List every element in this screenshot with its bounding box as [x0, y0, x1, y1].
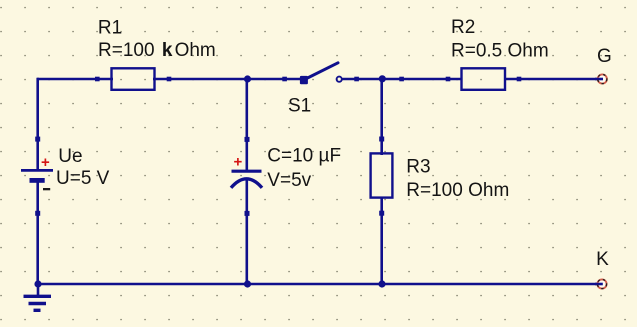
- wire: R2 right to terminal G: [504, 78, 602, 81]
- svg-text:R=100 kOhm: R=100 kOhm: [98, 40, 216, 61]
- node: junction at capacitor branch: [244, 75, 251, 82]
- wire: battery bottom down to bottom rail: [36, 181, 39, 285]
- wire: bottom rail from ground to terminal K: [37, 283, 602, 286]
- svg-text:K: K: [596, 249, 609, 270]
- wire: switch right terminal to R2: [343, 78, 463, 81]
- svg-text:G: G: [597, 46, 612, 67]
- wire: R3 branch lower segment: [380, 197, 383, 286]
- wire: junction to switch left terminal: [247, 78, 300, 81]
- node: junction bottom of capacitor branch: [244, 280, 251, 287]
- resistor R3: [371, 137, 393, 216]
- voltage source Ue (U=5 V): [21, 137, 53, 216]
- svg-text:+: +: [234, 154, 243, 171]
- resistor R2: [446, 68, 522, 90]
- resistor R1: [95, 68, 171, 90]
- svg-text:C=10 µF: C=10 µF: [267, 145, 341, 166]
- svg-text:V=5v: V=5v: [267, 170, 311, 191]
- wire: R3 branch upper segment: [380, 78, 383, 155]
- wire: capacitor branch upper segment: [246, 78, 249, 171]
- wire: capacitor branch lower segment: [246, 180, 249, 285]
- node: junction at R3 branch: [379, 75, 386, 82]
- terminal G: [595, 74, 608, 84]
- capacitor C1 (C=10 uF): [231, 137, 262, 216]
- terminal K: [595, 279, 607, 289]
- svg-text:R=100 Ohm: R=100 Ohm: [406, 180, 509, 201]
- switch S1: [282, 63, 359, 85]
- node: junction bottom-left at ground: [34, 280, 41, 287]
- wire: top-left horizontal from battery corner to R1: [37, 78, 113, 81]
- svg-text:R2: R2: [451, 17, 475, 38]
- wire: R1 right to capacitor junction: [153, 78, 249, 81]
- node: wire joint left of R2: [399, 77, 404, 82]
- svg-text:Ue: Ue: [58, 146, 82, 167]
- svg-text:R1: R1: [98, 18, 122, 39]
- svg-text:+: +: [41, 154, 50, 171]
- svg-text:U=5 V: U=5 V: [56, 168, 110, 189]
- ground: [24, 284, 52, 310]
- svg-text:R3: R3: [406, 156, 430, 177]
- svg-text:S1: S1: [288, 96, 311, 117]
- svg-text:R=0.5 Ohm: R=0.5 Ohm: [451, 40, 549, 61]
- wire: left vertical, top wire down to battery: [36, 78, 39, 171]
- node: junction bottom of R3 branch: [378, 280, 385, 287]
